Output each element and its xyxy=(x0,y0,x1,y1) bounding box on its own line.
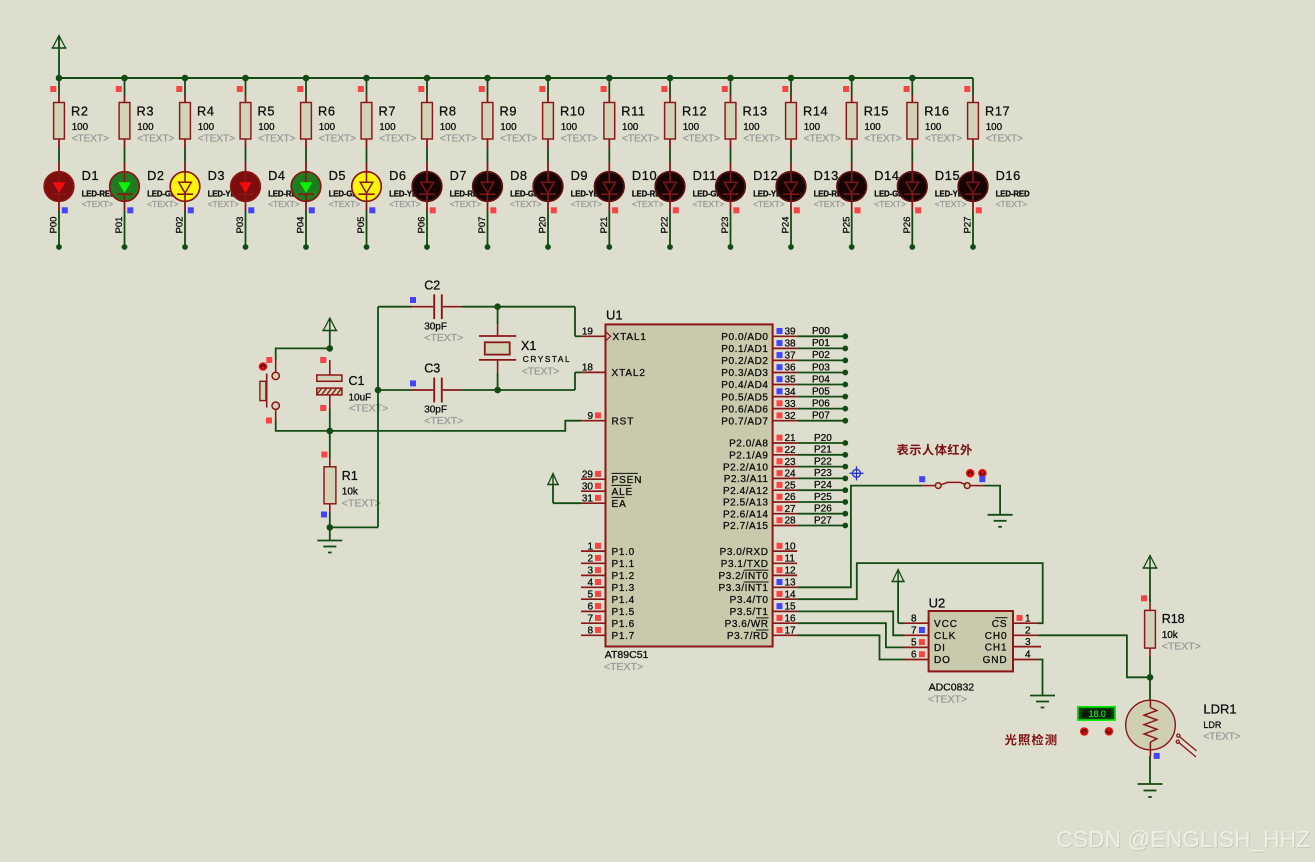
wire P3.3/INT1 to IR switch xyxy=(797,486,922,588)
wire net P02 xyxy=(797,359,845,361)
U1 right pin P0.6/AD6 (pin 33) xyxy=(721,399,797,416)
node junction on bus at column 4 xyxy=(242,75,249,82)
svg-text:P2.6/A14: P2.6/A14 xyxy=(723,509,769,520)
svg-text:R18: R18 xyxy=(1162,612,1185,626)
svg-text:<TEXT>: <TEXT> xyxy=(743,134,780,145)
wire R9 to D8 xyxy=(487,148,489,163)
svg-text:5: 5 xyxy=(587,589,593,600)
svg-text:D6: D6 xyxy=(389,168,407,183)
wire R3 to D2 xyxy=(124,148,126,163)
svg-text:<TEXT>: <TEXT> xyxy=(814,199,846,209)
voltmeter display 18.0 xyxy=(1078,707,1115,720)
svg-text:P3.0/RXD: P3.0/RXD xyxy=(720,547,769,558)
svg-text:LED-RED: LED-RED xyxy=(996,190,1030,199)
wire D6 to node P05 xyxy=(367,201,376,247)
svg-text:6: 6 xyxy=(587,602,593,613)
wire net P23 xyxy=(797,477,845,479)
svg-text:P1.6: P1.6 xyxy=(612,619,635,630)
wire D10 to node P21 xyxy=(609,201,618,247)
svg-text:D7: D7 xyxy=(450,168,468,183)
svg-text:P0.4/AD4: P0.4/AD4 xyxy=(721,380,768,391)
svg-text:U2: U2 xyxy=(929,596,946,611)
wire R2 to D1 xyxy=(58,148,60,163)
svg-text:P0.1/AD1: P0.1/AD1 xyxy=(721,344,768,355)
svg-text:P3.7/RD: P3.7/RD xyxy=(727,631,769,642)
svg-text:<TEXT>: <TEXT> xyxy=(996,199,1028,209)
ground (IR switch) xyxy=(988,514,1013,516)
svg-text:AT89C51: AT89C51 xyxy=(605,649,649,661)
wire R8 to D7 xyxy=(426,148,428,163)
svg-text:ADC0832: ADC0832 xyxy=(929,682,975,694)
node terminal P06 xyxy=(842,406,848,412)
svg-text:10k: 10k xyxy=(1162,630,1179,641)
svg-text:C2: C2 xyxy=(424,278,440,292)
svg-text:U1: U1 xyxy=(606,308,623,323)
svg-text:30: 30 xyxy=(582,481,594,492)
svg-text:P03: P03 xyxy=(235,217,246,234)
wire D5 to node P04 xyxy=(306,201,315,247)
svg-text:100: 100 xyxy=(561,122,578,133)
svg-text:2: 2 xyxy=(587,554,593,565)
svg-text:<TEXT>: <TEXT> xyxy=(342,498,381,510)
svg-text:P3.6/WR: P3.6/WR xyxy=(725,619,769,630)
svg-text:P04: P04 xyxy=(296,217,307,234)
U1 right pin P3.7/RD (pin 17) xyxy=(727,626,797,643)
svg-text:D11: D11 xyxy=(693,168,717,183)
svg-text:R1: R1 xyxy=(342,469,358,483)
svg-text:37: 37 xyxy=(785,351,797,362)
svg-text:P27: P27 xyxy=(963,217,974,234)
svg-text:R2: R2 xyxy=(71,104,89,119)
U2 left pin DO (pin 6) xyxy=(904,650,951,667)
svg-text:<TEXT>: <TEXT> xyxy=(935,199,967,209)
svg-text:D16: D16 xyxy=(996,168,1021,183)
U1 right pin P2.2/A10 (pin 23) xyxy=(723,457,797,474)
wire U2 GND to ground xyxy=(1038,660,1043,696)
node terminal P23 xyxy=(842,476,848,482)
wire net P22 xyxy=(797,466,845,468)
resistor R2 xyxy=(54,95,109,148)
U1 left pin P1.0 (pin 1) xyxy=(581,541,635,558)
svg-text:P21: P21 xyxy=(599,217,610,234)
svg-text:P23: P23 xyxy=(814,468,832,479)
svg-text:P02: P02 xyxy=(812,350,830,361)
svg-text:P26: P26 xyxy=(902,217,913,234)
wire net P01 xyxy=(797,347,845,349)
svg-text:<TEXT>: <TEXT> xyxy=(1162,641,1201,653)
wire column P27 (bus to resistor) xyxy=(964,78,973,95)
node terminal P20 xyxy=(842,440,848,446)
node terminal P03 xyxy=(243,244,249,250)
svg-text:P1.1: P1.1 xyxy=(612,559,635,570)
wire R11 to D10 xyxy=(608,148,610,163)
U1 right pin P0.7/AD7 (pin 32) xyxy=(721,411,797,428)
svg-text:24: 24 xyxy=(785,469,797,480)
svg-text:100: 100 xyxy=(258,122,275,133)
svg-text:<TEXT>: <TEXT> xyxy=(198,134,235,145)
wire R7 to D6 xyxy=(366,148,368,163)
svg-text:<TEXT>: <TEXT> xyxy=(208,199,240,209)
svg-text:31: 31 xyxy=(582,493,594,504)
wire net P06 xyxy=(797,408,845,410)
node terminal P24 xyxy=(788,244,794,250)
node terminal P25 xyxy=(842,499,848,505)
svg-text:<TEXT>: <TEXT> xyxy=(329,199,361,209)
svg-text:<TEXT>: <TEXT> xyxy=(510,199,542,209)
svg-text:100: 100 xyxy=(743,122,760,133)
wire P3.7/RD to U2 DO xyxy=(797,635,904,659)
power symbol VCC (reset circuit) xyxy=(322,318,337,348)
svg-text:100: 100 xyxy=(137,122,154,133)
wire D7 to node P06 xyxy=(427,201,436,247)
svg-text:CRYSTAL: CRYSTAL xyxy=(523,354,571,364)
wire C3 to XTAL2 xyxy=(462,372,581,390)
svg-text:29: 29 xyxy=(582,469,594,480)
U1 right pin P2.6/A14 (pin 27) xyxy=(723,504,797,521)
svg-text:100: 100 xyxy=(319,122,336,133)
svg-text:P0.0/AD0: P0.0/AD0 xyxy=(721,332,768,343)
svg-text:P2.7/A15: P2.7/A15 xyxy=(723,521,769,532)
U1 left pin P1.1 (pin 2) xyxy=(581,554,635,571)
svg-text:25: 25 xyxy=(785,480,797,491)
svg-text:<TEXT>: <TEXT> xyxy=(925,134,962,145)
svg-text:P3.3/INT1: P3.3/INT1 xyxy=(719,583,769,594)
switch SW-IR (human infrared sensor) xyxy=(919,469,987,489)
wire column P06 (bus to resistor) xyxy=(418,78,427,95)
wire C2 to XTAL1 xyxy=(462,307,581,337)
svg-text:P23: P23 xyxy=(720,217,731,234)
svg-text:P27: P27 xyxy=(814,515,832,526)
U1 right pin P2.4/A12 (pin 25) xyxy=(723,480,797,497)
svg-text:<TEXT>: <TEXT> xyxy=(683,134,720,145)
wire D9 to node P20 xyxy=(548,201,557,247)
LED D8 (LED-GREEN) xyxy=(473,163,556,210)
svg-text:P24: P24 xyxy=(814,480,832,491)
svg-text:D3: D3 xyxy=(208,168,226,183)
node junction on bus at column 15 xyxy=(909,75,916,82)
svg-text:100: 100 xyxy=(72,122,89,133)
svg-text:P2.2/A10: P2.2/A10 xyxy=(723,462,769,473)
op-amp U1 body (AT89C51 microcontroller) xyxy=(604,308,773,674)
voltmeter probe terminals xyxy=(1080,727,1113,736)
LED D11 (LED-GREEN) xyxy=(655,163,738,210)
svg-text:P01: P01 xyxy=(812,338,830,349)
svg-text:LDR: LDR xyxy=(1203,720,1222,730)
svg-text:7: 7 xyxy=(911,626,917,637)
svg-text:13: 13 xyxy=(785,578,797,589)
wire D4 to node P03 xyxy=(246,201,255,247)
svg-text:<TEXT>: <TEXT> xyxy=(424,332,463,344)
wire column P03 (bus to resistor) xyxy=(237,78,246,95)
svg-text:9: 9 xyxy=(587,411,593,422)
svg-text:P1.0: P1.0 xyxy=(612,547,635,558)
power symbol VCC (U2) xyxy=(891,570,904,624)
svg-text:4: 4 xyxy=(587,578,593,589)
svg-text:27: 27 xyxy=(785,504,797,515)
wire net P20 xyxy=(797,442,845,444)
svg-text:36: 36 xyxy=(785,363,797,374)
svg-text:10k: 10k xyxy=(342,487,359,498)
node terminal P27 xyxy=(842,523,848,529)
node junction on bus at column 3 xyxy=(182,75,189,82)
svg-text:8: 8 xyxy=(911,613,917,624)
svg-text:P24: P24 xyxy=(781,217,792,234)
node junction on bus at column 11 xyxy=(667,75,674,82)
node junction on bus at column 12 xyxy=(727,75,734,82)
svg-text:<TEXT>: <TEXT> xyxy=(604,661,643,673)
svg-text:RST: RST xyxy=(612,416,635,427)
svg-text:23: 23 xyxy=(785,457,797,468)
svg-text:D15: D15 xyxy=(935,168,960,183)
wire R10 to D9 xyxy=(547,148,549,163)
ground (U2) xyxy=(1030,695,1055,697)
U1 left pin EA (pin 31) xyxy=(581,493,627,510)
U1 left pin PSEN (pin 29) xyxy=(581,469,642,486)
svg-text:<TEXT>: <TEXT> xyxy=(874,199,906,209)
LED D13 (LED-RED) xyxy=(776,163,848,210)
power symbol VCC (top-left rail) xyxy=(52,36,67,79)
LED D7 (LED-RED) xyxy=(412,163,484,210)
svg-text:P06: P06 xyxy=(812,398,830,409)
wire column P25 (bus to resistor) xyxy=(843,78,852,95)
svg-text:<TEXT>: <TEXT> xyxy=(424,415,463,427)
capacitor C2 xyxy=(410,278,463,344)
svg-text:R11: R11 xyxy=(621,104,645,119)
svg-text:1: 1 xyxy=(587,541,593,552)
svg-text:7: 7 xyxy=(587,613,593,624)
resistor R11 xyxy=(604,95,659,148)
svg-text:22: 22 xyxy=(785,445,797,456)
svg-text:R13: R13 xyxy=(743,104,768,119)
U2 right pin CH1 (pin 3) xyxy=(985,637,1041,654)
svg-text:100: 100 xyxy=(804,122,821,133)
node terminal P04 xyxy=(303,244,309,250)
U1 left pin P1.4 (pin 5) xyxy=(581,589,635,606)
svg-text:35: 35 xyxy=(785,375,797,386)
wire column P24 (bus to resistor) xyxy=(782,78,791,95)
node terminal P01 xyxy=(842,346,848,352)
svg-text:PSEN: PSEN xyxy=(612,475,643,486)
LED D10 (LED-RED) xyxy=(595,163,667,210)
svg-text:D1: D1 xyxy=(82,168,100,183)
wire net P24 xyxy=(797,489,845,491)
svg-text:1: 1 xyxy=(1025,613,1031,624)
svg-text:X1: X1 xyxy=(521,339,536,353)
LED D2 (LED-GREEN) xyxy=(110,163,193,210)
resistor R8 xyxy=(422,95,477,148)
node terminal P27 xyxy=(970,244,976,250)
svg-text:26: 26 xyxy=(785,492,797,503)
svg-text:R8: R8 xyxy=(439,104,457,119)
node terminal P01 xyxy=(122,244,128,250)
node junction R1-bottom xyxy=(327,524,334,531)
svg-text:<TEXT>: <TEXT> xyxy=(500,134,537,145)
svg-text:<TEXT>: <TEXT> xyxy=(571,199,603,209)
svg-text:C1: C1 xyxy=(349,374,365,388)
node terminal P25 xyxy=(849,244,855,250)
svg-text:P26: P26 xyxy=(814,504,832,515)
svg-text:P0.5/AD5: P0.5/AD5 xyxy=(721,392,768,403)
wire net P26 xyxy=(797,513,845,515)
op-amp U2 body (ADC0832) xyxy=(928,596,1013,706)
wire R18 to LDR xyxy=(1149,656,1151,677)
wire column P05 (bus to resistor) xyxy=(358,78,367,95)
svg-text:<TEXT>: <TEXT> xyxy=(632,199,664,209)
svg-text:D4: D4 xyxy=(268,168,286,183)
LDR LDR1 (photoresistor) xyxy=(1126,677,1241,759)
wire LDR to ground xyxy=(1149,756,1151,784)
LED D1 (LED-RED) xyxy=(44,163,116,210)
wire P3.5/T1 to U2 CLK xyxy=(797,611,904,635)
svg-text:DO: DO xyxy=(934,655,951,666)
U1 right pin P3.6/WR (pin 16) xyxy=(725,613,798,630)
svg-text:D9: D9 xyxy=(571,168,589,183)
U1 right pin P3.4/T0 (pin 14) xyxy=(730,589,798,606)
svg-text:D5: D5 xyxy=(329,168,347,183)
node junction on bus at column 10 xyxy=(606,75,613,82)
node terminal P21 xyxy=(842,452,848,458)
crystal X1 xyxy=(479,307,571,390)
svg-text:100: 100 xyxy=(198,122,215,133)
U1 right pin P2.7/A15 (pin 28) xyxy=(723,516,797,533)
U1 left pin ALE (pin 30) xyxy=(581,481,633,498)
svg-text:P2.4/A12: P2.4/A12 xyxy=(723,486,769,497)
node terminal P07 xyxy=(485,244,491,250)
svg-text:P01: P01 xyxy=(114,217,125,234)
svg-text:4: 4 xyxy=(1025,650,1031,661)
svg-text:100: 100 xyxy=(683,122,700,133)
node junction on bus at column 5 xyxy=(303,75,310,82)
svg-text:P2.5/A13: P2.5/A13 xyxy=(723,498,769,509)
U1 left pin P1.5 (pin 6) xyxy=(581,602,635,619)
node terminal P05 xyxy=(364,244,370,250)
svg-text:P25: P25 xyxy=(841,217,852,234)
svg-text:<TEXT>: <TEXT> xyxy=(137,134,174,145)
svg-text:100: 100 xyxy=(379,122,396,133)
svg-text:P2.1/A9: P2.1/A9 xyxy=(729,451,768,462)
svg-text:2: 2 xyxy=(1025,626,1031,637)
svg-text:14: 14 xyxy=(785,589,797,600)
svg-text:CH0: CH0 xyxy=(985,631,1008,642)
svg-text:P05: P05 xyxy=(356,217,367,234)
node junction on bus at column 7 xyxy=(424,75,431,82)
svg-text:R7: R7 xyxy=(379,104,397,119)
svg-text:100: 100 xyxy=(925,122,942,133)
wire net P05 xyxy=(797,396,845,398)
wire column P22 (bus to resistor) xyxy=(661,78,670,95)
svg-text:3: 3 xyxy=(587,566,593,577)
node junction reset-top xyxy=(327,345,334,352)
wire button to RST net xyxy=(276,421,330,431)
wire D3 to node P02 xyxy=(185,201,194,247)
resistor R18 xyxy=(1141,595,1201,656)
node junction on bus at column 1 xyxy=(56,75,63,82)
svg-text:<TEXT>: <TEXT> xyxy=(522,366,559,377)
svg-text:P1.4: P1.4 xyxy=(612,595,635,606)
LED D12 (LED-YELLOW) xyxy=(716,163,805,210)
wire net P07 xyxy=(797,420,845,422)
svg-text:P21: P21 xyxy=(814,445,832,456)
svg-text:D2: D2 xyxy=(147,168,165,183)
svg-text:P25: P25 xyxy=(814,492,832,503)
node junction on bus at column 14 xyxy=(848,75,855,82)
svg-text:P07: P07 xyxy=(812,411,830,422)
svg-text:<TEXT>: <TEXT> xyxy=(864,134,901,145)
svg-text:<TEXT>: <TEXT> xyxy=(147,199,179,209)
wire R6 to D5 xyxy=(305,148,307,163)
U2 right pin CS (pin 1) xyxy=(992,613,1038,630)
svg-text:18: 18 xyxy=(582,363,594,374)
LED D15 (LED-YELLOW) xyxy=(898,163,987,210)
LED D14 (LED-GREEN) xyxy=(837,163,920,210)
svg-text:5: 5 xyxy=(911,638,917,649)
svg-text:R10: R10 xyxy=(560,104,585,119)
svg-text:P3.1/TXD: P3.1/TXD xyxy=(721,559,769,570)
svg-text:28: 28 xyxy=(785,516,797,527)
node terminal P04 xyxy=(842,382,848,388)
wire D15 to node P26 xyxy=(912,201,921,247)
svg-text:<TEXT>: <TEXT> xyxy=(622,134,659,145)
U2 left pin VCC (pin 8) xyxy=(904,613,958,630)
U1 left pin P1.2 (pin 3) xyxy=(581,566,635,583)
svg-text:P0.6/AD6: P0.6/AD6 xyxy=(721,404,768,415)
U2 left pin CLK (pin 7) xyxy=(904,626,956,643)
wire D8 to node P07 xyxy=(488,201,497,247)
wire R17 to D16 xyxy=(972,148,974,163)
U1 left pin P1.3 (pin 4) xyxy=(581,578,635,595)
svg-text:P07: P07 xyxy=(477,217,488,234)
node junction on bus at column 8 xyxy=(484,75,491,82)
wire column P21 (bus to resistor) xyxy=(601,78,610,95)
svg-text:D14: D14 xyxy=(874,168,899,183)
svg-text:P00: P00 xyxy=(812,326,830,337)
node junction R18/LDR/CH0 xyxy=(1147,674,1154,681)
wire reset-top to button xyxy=(276,348,330,360)
node terminal P03 xyxy=(842,370,848,376)
svg-text:P04: P04 xyxy=(812,374,830,385)
svg-text:21: 21 xyxy=(785,433,797,444)
wire column P20 (bus to resistor) xyxy=(539,78,548,95)
node terminal P00 xyxy=(842,333,848,339)
wire net P00 xyxy=(797,335,845,337)
svg-text:R4: R4 xyxy=(197,104,215,119)
U2 right pin GND (pin 4) xyxy=(983,650,1038,667)
U1 right pin P3.5/T1 (pin 15) xyxy=(730,602,798,619)
node terminal P00 xyxy=(56,244,62,250)
node junction on bus at column 9 xyxy=(545,75,552,82)
node terminal P22 xyxy=(667,244,673,250)
svg-text:<TEXT>: <TEXT> xyxy=(268,199,300,209)
svg-text:R5: R5 xyxy=(258,104,276,119)
resistor R4 xyxy=(180,95,235,148)
wire R14 to D13 xyxy=(790,148,792,163)
LED D4 (LED-RED) xyxy=(231,163,303,210)
wire R13 to D12 xyxy=(730,148,732,163)
resistor R1 xyxy=(321,431,381,518)
node terminal P21 xyxy=(606,244,612,250)
svg-text:100: 100 xyxy=(622,122,639,133)
resistor R17 xyxy=(968,95,1023,148)
resistor R10 xyxy=(543,95,598,148)
wire net P27 xyxy=(797,525,845,527)
svg-text:P3.5/T1: P3.5/T1 xyxy=(730,607,769,618)
U1 right pin P3.2/INT0 (pin 12) xyxy=(719,566,798,583)
wire D2 to node P01 xyxy=(125,201,134,247)
svg-text:P03: P03 xyxy=(812,362,830,373)
svg-text:P0.2/AD2: P0.2/AD2 xyxy=(721,356,768,367)
ground (reset circuit) xyxy=(317,527,342,552)
svg-text:19: 19 xyxy=(582,327,594,338)
